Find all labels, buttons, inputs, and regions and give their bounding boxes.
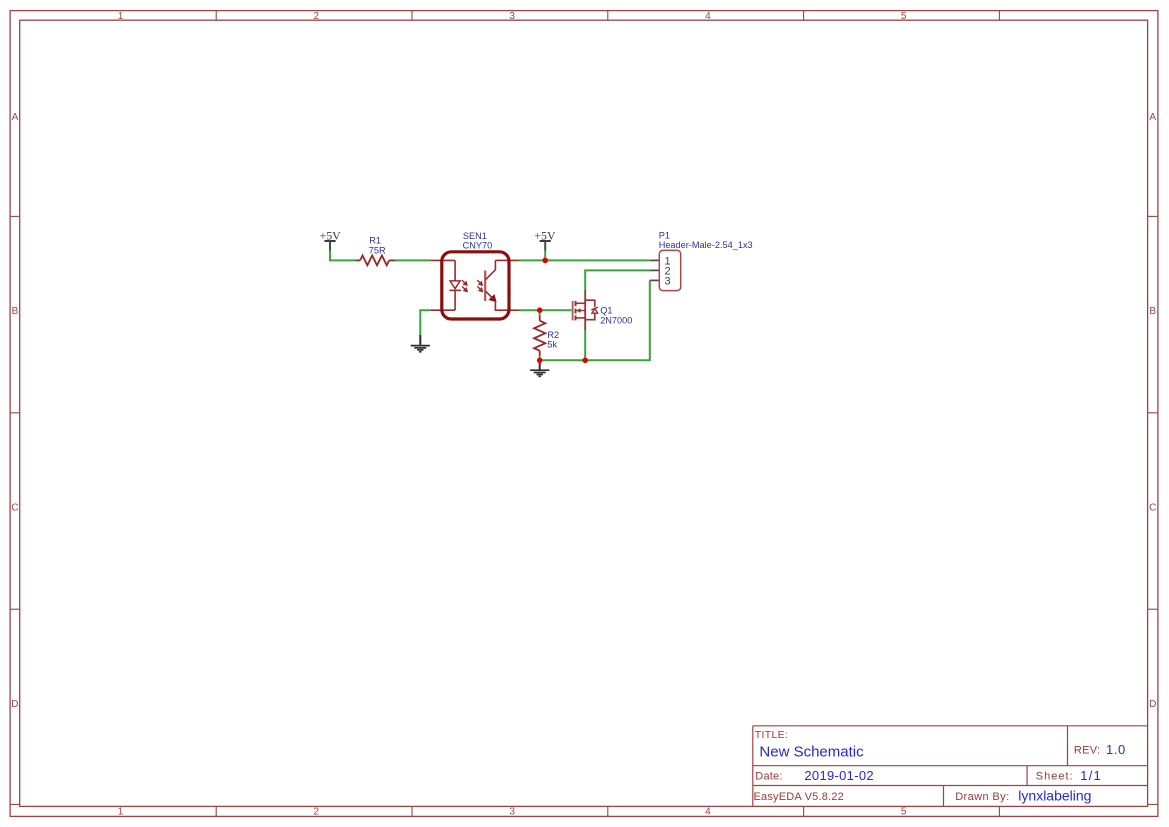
svg-text:75R: 75R [369, 245, 386, 255]
wire R2 top stub [539, 310, 541, 316]
svg-text:Drawn By:: Drawn By: [955, 791, 1009, 803]
svg-text:R1: R1 [369, 236, 381, 246]
svg-text:1: 1 [118, 11, 124, 22]
frame column numbers top [118, 11, 907, 22]
wire Q1 drain to P1 pin2 [585, 270, 650, 290]
svg-text:REV:: REV: [1074, 745, 1100, 757]
ground (under R2) [530, 360, 549, 376]
svg-text:1.0: 1.0 [1106, 742, 1126, 757]
svg-text:lynxlabeling: lynxlabeling [1018, 788, 1091, 804]
ground (under SEN1) [411, 335, 430, 352]
wire +5V drop to bus [544, 250, 546, 260]
svg-text:New Schematic: New Schematic [759, 743, 864, 760]
svg-text:3: 3 [509, 807, 515, 818]
svg-text:Header-Male-2.54_1x3: Header-Male-2.54_1x3 [659, 240, 753, 250]
wire Q1 source down [584, 330, 586, 361]
svg-text:D: D [1149, 699, 1156, 710]
svg-text:2019-01-02: 2019-01-02 [804, 768, 874, 783]
frame column numbers bottom [118, 807, 907, 818]
svg-text:3: 3 [509, 11, 515, 22]
optocoupler SEN1 [430, 252, 519, 319]
junction node at R2 top [537, 307, 543, 313]
svg-text:EasyEDA V5.8.22: EasyEDA V5.8.22 [754, 791, 844, 803]
wire SEN1 cathode down [420, 310, 430, 335]
svg-text:CNY70: CNY70 [463, 240, 493, 250]
svg-text:D: D [11, 699, 18, 710]
wire +5V to R1 [330, 250, 356, 260]
power flag +5V (right) [534, 228, 556, 250]
svg-text:3: 3 [665, 275, 671, 287]
svg-text:4: 4 [705, 807, 711, 818]
svg-text:2N7000: 2N7000 [600, 315, 632, 325]
frame row letters left [11, 112, 18, 710]
junction node at +5V / pin1 bus [542, 258, 548, 264]
svg-text:A: A [1149, 112, 1156, 123]
svg-text:5k: 5k [547, 340, 557, 350]
wire SEN1 emitter to gate [520, 309, 572, 311]
svg-text:4: 4 [705, 11, 711, 22]
svg-text:SEN1: SEN1 [463, 231, 487, 241]
svg-text:Date:: Date: [755, 771, 782, 783]
title block border [753, 726, 1148, 807]
svg-text:2: 2 [314, 807, 320, 818]
svg-text:Sheet:: Sheet: [1036, 771, 1074, 783]
svg-text:C: C [1149, 503, 1156, 514]
svg-text:Q1: Q1 [600, 306, 612, 316]
svg-text:1/1: 1/1 [1080, 768, 1102, 783]
junction node at Q1 source / rail [582, 358, 588, 364]
wire R1 to SEN1 [395, 259, 430, 261]
header P1 [650, 250, 681, 290]
junction node at R2 bottom / ground rail [537, 358, 543, 364]
wire R2 bottom stub [539, 355, 541, 360]
power flag +5V (left) [320, 228, 342, 250]
resistor R1 [356, 255, 396, 265]
svg-text:A: A [12, 112, 19, 123]
svg-text:5: 5 [901, 11, 907, 22]
svg-text:2: 2 [314, 11, 320, 22]
wire SEN1 pin4 to P1 pin1 [520, 259, 650, 261]
svg-text:B: B [1149, 306, 1156, 317]
frame row letters right [1149, 112, 1156, 710]
svg-text:5: 5 [901, 807, 907, 818]
svg-text:1: 1 [118, 807, 124, 818]
frame column ticks bottom [216, 806, 999, 816]
wire ground rail to P1 pin3 [540, 280, 650, 360]
resistor R2 [534, 314, 545, 356]
svg-text:R2: R2 [547, 330, 559, 340]
transistor Q1 [573, 290, 598, 330]
frame row ticks right [1148, 216, 1158, 804]
svg-text:TITLE:: TITLE: [755, 729, 788, 741]
frame column ticks top [216, 11, 999, 21]
svg-text:C: C [11, 503, 18, 514]
frame row ticks left [10, 216, 20, 804]
svg-text:B: B [12, 306, 19, 317]
